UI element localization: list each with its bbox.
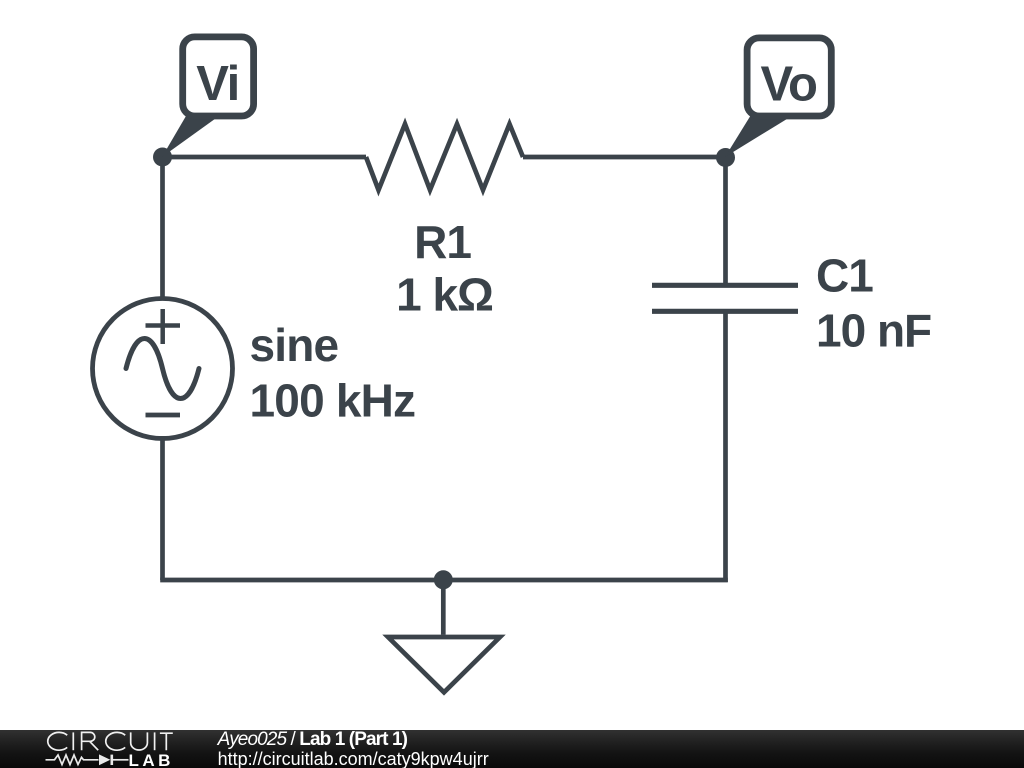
capacitor C1 bottom plate (652, 309, 798, 314)
ground symbol triangle (388, 637, 500, 692)
svg-text:sine: sine (250, 319, 339, 371)
CircuitLab logo diode-to-LAB lead (113, 759, 129, 761)
wire: bottom rail (160, 578, 728, 583)
CircuitLab logo diode cathode bar (111, 755, 114, 765)
wire: top-right horizontal (resistor R1 right lead to node Vo) (523, 155, 728, 160)
CircuitLab logo letter C (48, 732, 173, 750)
node Vo junction dot (716, 148, 735, 167)
node flag Vo tail (725, 117, 791, 158)
CircuitLab logo diode triangle (99, 754, 110, 765)
svg-text:100 kHz: 100 kHz (250, 375, 416, 427)
wire: left vertical lower (source V1 minus terminal to bottom rail) (160, 436, 165, 580)
wire: right vertical upper (node Vo to capacitor C1 top plate) (723, 155, 728, 287)
svg-text:10 nF: 10 nF (816, 304, 931, 356)
svg-text:Vo: Vo (761, 58, 818, 112)
CircuitLab logo letter I2 (154, 732, 156, 750)
svg-text:Ayeo025 / Lab 1 (Part 1): Ayeo025 / Lab 1 (Part 1) (217, 729, 408, 750)
wire: top-left horizontal (node Vi to resistor R1 left lead) (160, 155, 366, 160)
capacitor C1 top plate (652, 283, 798, 288)
svg-text:Vi: Vi (196, 57, 238, 111)
footer bar (0, 730, 1024, 768)
svg-text:LAB: LAB (129, 751, 174, 768)
voltage source V1 minus sign (146, 413, 181, 418)
CircuitLab logo letter C2 (106, 732, 125, 750)
ground stub wire (441, 578, 446, 635)
CircuitLab logo letter T (160, 733, 173, 750)
CircuitLab logo letter R (82, 732, 99, 750)
node flag Vi box (183, 37, 254, 116)
node Vi junction dot (153, 148, 172, 167)
wire: left vertical upper (node Vi down to source V1 plus terminal) (160, 155, 165, 301)
voltage source V1 plus sign (146, 309, 181, 344)
node flag Vo box (747, 38, 831, 116)
node flag Vi tail (162, 116, 219, 157)
svg-text:C1: C1 (816, 250, 873, 302)
ground node junction dot (434, 570, 453, 589)
wire: right vertical lower (capacitor C1 bottom plate to bottom rail) (723, 310, 728, 582)
voltage source V1 sine waveform (126, 339, 199, 399)
resistor R1 (366, 124, 523, 190)
CircuitLab logo letter U (131, 732, 148, 750)
CircuitLab logo resistor squiggle lead (46, 755, 129, 765)
svg-text:R1: R1 (414, 216, 471, 268)
svg-text:1 kΩ: 1 kΩ (396, 269, 493, 321)
svg-text:http://circuitlab.com/caty9kpw: http://circuitlab.com/caty9kpw4ujrr (218, 749, 489, 768)
voltage source V1 circle (93, 299, 233, 439)
CircuitLab logo letter I (72, 732, 74, 750)
